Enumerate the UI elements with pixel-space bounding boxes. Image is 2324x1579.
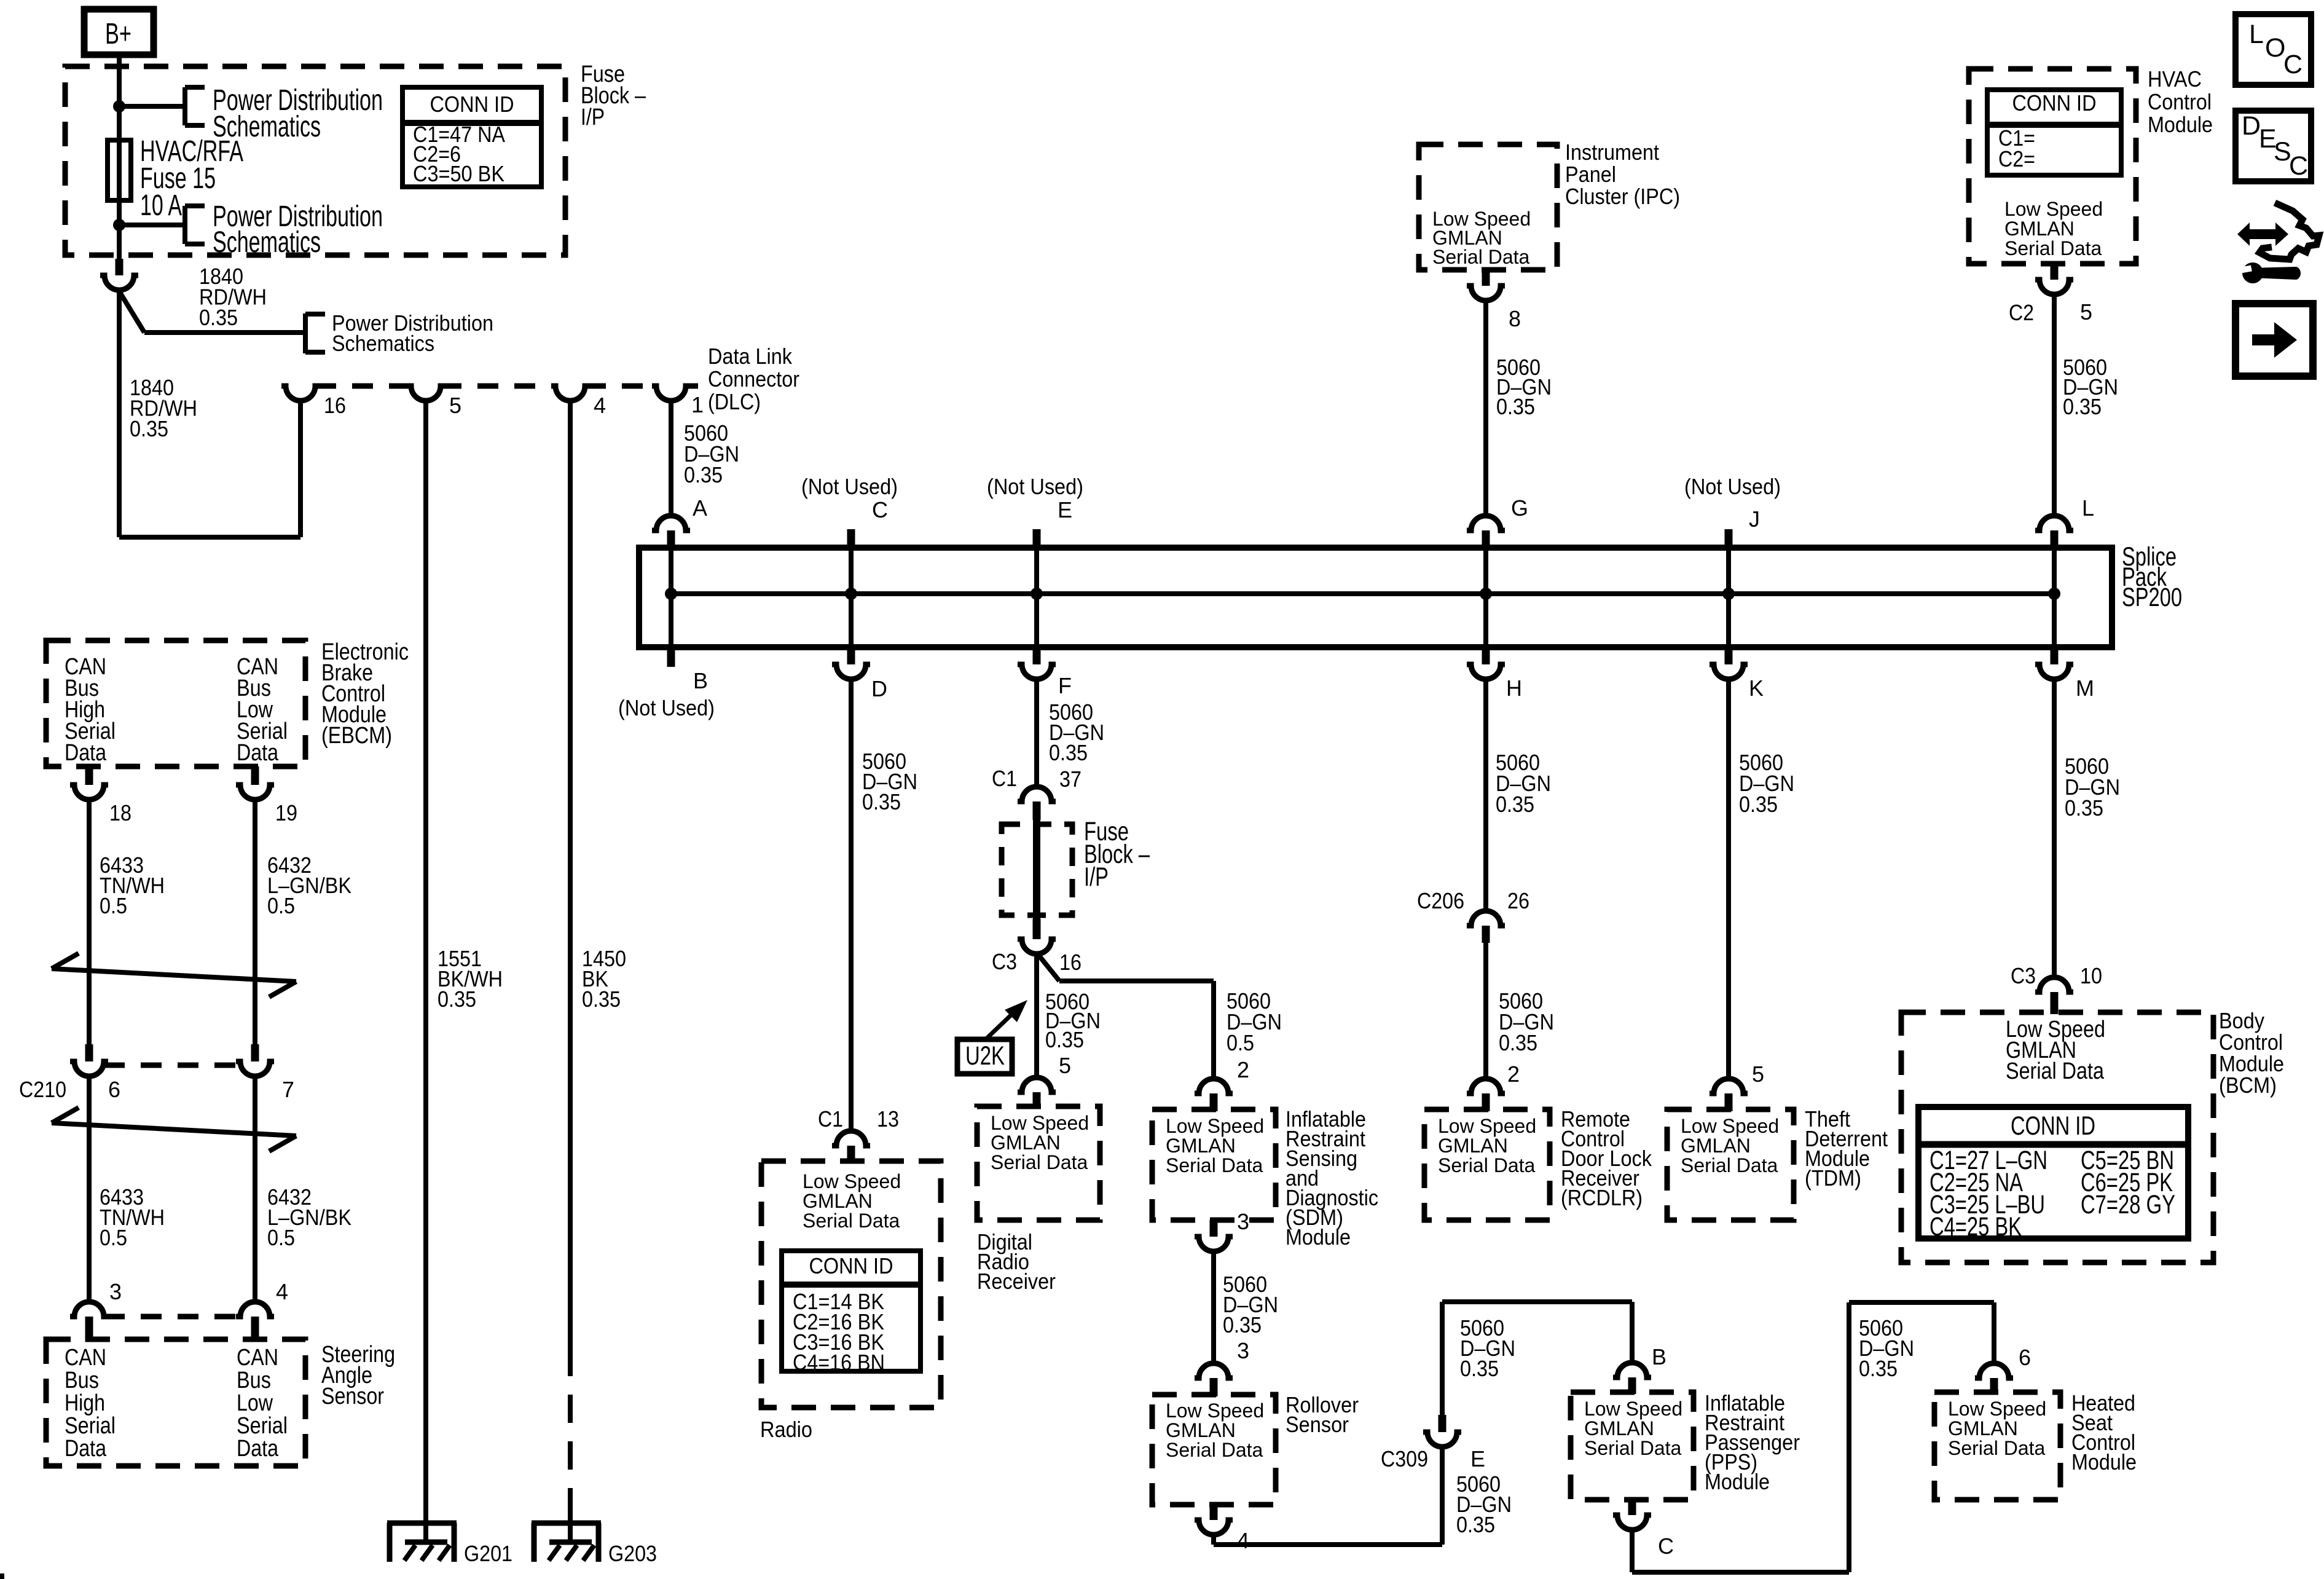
svg-text:Sensor: Sensor — [1286, 1412, 1349, 1437]
svg-text:G201: G201 — [464, 1541, 512, 1566]
U2K DTC callout box — [957, 1039, 1012, 1074]
svg-text:4: 4 — [1237, 1528, 1249, 1553]
svg-text:Data: Data — [65, 740, 107, 766]
svg-text:C7=28 GY: C7=28 GY — [2081, 1190, 2175, 1219]
svg-text:B+: B+ — [105, 18, 132, 50]
svg-text:L: L — [2249, 20, 2264, 49]
svg-text:C4=25 BK: C4=25 BK — [1929, 1212, 2022, 1242]
connector C309 pin E — [1439, 1415, 1447, 1432]
wire 5060 D-GN SDM to rollover sensor — [1211, 1251, 1216, 1363]
svg-text:7: 7 — [282, 1077, 294, 1102]
EBCM pin 18 connector — [85, 766, 93, 785]
wire 5060 D-GN splice K to TDM — [1726, 679, 1731, 1079]
splice through-wire at x=2813 — [1726, 551, 1731, 645]
svg-text:Serial Data: Serial Data — [991, 1151, 1088, 1173]
twisted pair symbol lower — [52, 1123, 296, 1136]
off-page bracket power distribution lower — [183, 206, 187, 244]
svg-text:High: High — [65, 1390, 105, 1416]
HVAC connector C2 pin 5 — [2051, 264, 2059, 280]
svg-text:0.35: 0.35 — [1496, 792, 1534, 817]
svg-text:CONN ID: CONN ID — [2011, 1111, 2095, 1141]
SDM pin 3 connector — [1210, 1220, 1218, 1237]
DLC connector face dashed line — [315, 384, 411, 389]
svg-text:0.35: 0.35 — [199, 305, 238, 330]
svg-text:I/P: I/P — [1084, 862, 1109, 892]
DLC pin 5 — [407, 386, 445, 401]
svg-text:0.5: 0.5 — [267, 1225, 295, 1250]
svg-text:Sensor: Sensor — [321, 1384, 384, 1409]
svg-text:37: 37 — [1059, 766, 1082, 792]
CONN ID table radio — [782, 1251, 921, 1371]
svg-text:0.35: 0.35 — [1739, 792, 1778, 817]
svg-text:Low Speed: Low Speed — [803, 1170, 901, 1192]
svg-text:Low Speed: Low Speed — [2004, 198, 2103, 220]
steering angle sensor dashed box — [46, 1339, 305, 1466]
svg-text:0.35: 0.35 — [1049, 740, 1088, 765]
svg-text:GMLAN: GMLAN — [1948, 1417, 2018, 1439]
CONN ID table HVAC — [1987, 90, 2121, 175]
svg-text:Module: Module — [1705, 1469, 1770, 1494]
svg-text:Low Speed: Low Speed — [1166, 1115, 1264, 1137]
connector C210 pin 7 — [251, 1044, 259, 1061]
connector C3 pin 10 BCM — [2035, 977, 2073, 992]
splice pin A — [652, 516, 690, 530]
splice bus junction at x=1092 — [665, 588, 677, 600]
svg-text:U2K: U2K — [965, 1041, 1005, 1071]
digital radio receiver dashed box — [977, 1106, 1100, 1220]
splice pin M — [2051, 645, 2059, 664]
svg-text:I/P: I/P — [581, 104, 605, 130]
wire branch to power distribution schematics — [119, 291, 144, 333]
DLC pin 4 — [551, 386, 589, 401]
connector C206 pin 26 — [1467, 911, 1505, 926]
svg-text:Data: Data — [237, 1436, 279, 1462]
svg-text:SP200: SP200 — [2122, 583, 2182, 612]
svg-text:CAN: CAN — [237, 1345, 278, 1371]
splice bus junction at x=3343 — [2048, 588, 2060, 600]
fuse F15 HVAC/RFA 10A — [108, 140, 131, 200]
svg-text:Low Speed: Low Speed — [1438, 1115, 1536, 1137]
wire 6433 TN/WH EBCM to C210 — [87, 800, 92, 1044]
svg-text:8: 8 — [1509, 306, 1521, 331]
svg-text:4: 4 — [276, 1279, 288, 1304]
PPS pin B connector — [1613, 1363, 1651, 1377]
svg-text:L: L — [2082, 495, 2094, 521]
svg-text:0.5: 0.5 — [100, 893, 127, 918]
svg-text:C3: C3 — [992, 949, 1017, 974]
svg-text:0.5: 0.5 — [1227, 1030, 1254, 1055]
svg-text:C1: C1 — [992, 766, 1017, 791]
svg-text:0.35: 0.35 — [684, 462, 723, 487]
svg-text:0.35: 0.35 — [582, 986, 621, 1012]
off-page bracket power distribution (mid) — [303, 313, 308, 353]
wire 6433 TN/WH C210 to steering sensor — [87, 1076, 92, 1302]
svg-text:G203: G203 — [608, 1541, 657, 1566]
svg-text:0.35: 0.35 — [1456, 1512, 1495, 1537]
C210 dashed connector line — [104, 1063, 240, 1068]
svg-text:19: 19 — [275, 800, 297, 825]
wire 1840 RD/WH down and over to DLC pin 16 — [117, 290, 122, 537]
steering sensor connector dashed line — [104, 1314, 240, 1320]
svg-text:C309: C309 — [1381, 1446, 1428, 1471]
TDM pin 5 connector — [1710, 1079, 1748, 1093]
svg-text:D: D — [2242, 111, 2261, 141]
PPS pin C connector — [1628, 1500, 1636, 1515]
svg-text:GMLAN: GMLAN — [1681, 1135, 1751, 1157]
svg-text:O: O — [2265, 33, 2285, 63]
BCM dashed box — [1901, 1012, 2213, 1262]
svg-text:(Not Used): (Not Used) — [801, 474, 898, 499]
svg-text:18: 18 — [109, 800, 132, 825]
ground G203 — [532, 1521, 601, 1526]
wire 5060 D-GN splice H down — [1483, 679, 1488, 911]
page corner mark — [0, 1573, 4, 1579]
svg-text:2: 2 — [1507, 1061, 1520, 1087]
svg-text:Schematics: Schematics — [213, 226, 321, 259]
B+ power node — [84, 9, 154, 55]
wire 1450 BK from DLC pin 4 to G203 — [568, 400, 573, 1348]
wire 6432 L-GN/BK C210 to steering sensor — [253, 1076, 257, 1302]
wire through small fuse block — [1033, 820, 1040, 919]
svg-text:E: E — [1058, 497, 1072, 522]
connector C1 pin 37 — [1018, 787, 1056, 801]
svg-text:(Not Used): (Not Used) — [987, 474, 1083, 499]
wire 5060 D-GN HVAC to splice L — [2052, 294, 2057, 516]
svg-text:M: M — [2076, 675, 2094, 701]
wire 5060 D-GN to digital radio receiver — [1034, 954, 1039, 1077]
svg-text:Bus: Bus — [65, 1368, 99, 1393]
steering sensor pin 4 connector — [236, 1302, 274, 1317]
svg-text:J: J — [1749, 506, 1760, 532]
svg-text:CONN ID: CONN ID — [809, 1253, 893, 1278]
svg-text:Schematics: Schematics — [332, 331, 434, 356]
RCDLR dashed box — [1424, 1109, 1550, 1220]
svg-text:0.35: 0.35 — [1460, 1356, 1499, 1381]
svg-text:0.35: 0.35 — [438, 986, 476, 1012]
svg-text:C2: C2 — [2009, 300, 2034, 325]
svg-text:GMLAN: GMLAN — [1584, 1417, 1654, 1439]
svg-text:E: E — [1470, 1446, 1485, 1471]
EBCM pin 19 connector — [251, 766, 259, 785]
svg-text:Serial Data: Serial Data — [803, 1210, 900, 1232]
wire B+ feed down through fuse block — [117, 52, 122, 259]
CONN ID table BCM — [1918, 1107, 2188, 1238]
wire 5060 D-GN from DLC pin 1 to splice A — [669, 400, 673, 516]
svg-text:(EBCM): (EBCM) — [321, 723, 392, 749]
svg-text:Connector: Connector — [708, 366, 799, 392]
SDM dashed box — [1152, 1109, 1276, 1220]
svg-text:GMLAN: GMLAN — [1166, 1419, 1236, 1441]
steering sensor pin 3 connector — [70, 1302, 108, 1317]
svg-text:Serial Data: Serial Data — [1166, 1154, 1263, 1176]
svg-text:Serial: Serial — [237, 1413, 288, 1439]
IPC pin 8 connector — [1482, 270, 1490, 286]
splice bus wire — [671, 591, 2054, 596]
svg-text:10 A: 10 A — [140, 189, 182, 222]
wire 1551 BK/WH from DLC pin 5 to G201 — [423, 400, 428, 1542]
svg-text:Low Speed: Low Speed — [1948, 1398, 2046, 1420]
svg-text:C4=16 BN: C4=16 BN — [793, 1350, 885, 1375]
svg-text:A: A — [693, 495, 707, 521]
svg-text:13: 13 — [877, 1106, 899, 1132]
heated seat pin 6 connector — [1975, 1363, 2013, 1378]
svg-text:Serial Data: Serial Data — [1584, 1437, 1682, 1459]
SDM pin 2 connector — [1195, 1079, 1233, 1093]
svg-text:C206: C206 — [1417, 888, 1464, 913]
svg-text:10: 10 — [2080, 963, 2102, 988]
digital radio receiver pin 5 connector — [1018, 1077, 1056, 1092]
EBCM dashed box — [46, 640, 305, 766]
svg-text:4: 4 — [594, 393, 606, 418]
svg-text:6: 6 — [2019, 1345, 2031, 1370]
splice pin C (not used) — [847, 529, 855, 551]
wire branch to power distribution (lower) — [119, 222, 185, 227]
svg-text:0.35: 0.35 — [1859, 1356, 1898, 1381]
svg-text:0.35: 0.35 — [862, 789, 901, 814]
svg-text:B: B — [693, 668, 708, 693]
svg-text:5: 5 — [1752, 1061, 1764, 1087]
wire split to SDM branch — [1037, 953, 1059, 981]
splice bus junction at x=1385 — [845, 588, 857, 600]
twisted pair symbol upper — [52, 969, 296, 982]
svg-text:HVAC: HVAC — [2148, 66, 2202, 92]
svg-text:0.35: 0.35 — [2065, 795, 2103, 821]
svg-text:5: 5 — [1059, 1053, 1071, 1078]
svg-text:Low Speed: Low Speed — [1681, 1115, 1779, 1137]
svg-text:Cluster (IPC): Cluster (IPC) — [1565, 184, 1680, 209]
svg-text:Low Speed: Low Speed — [991, 1112, 1089, 1134]
rollover sensor pin 3 connector — [1195, 1363, 1233, 1378]
DLC pin 16 — [281, 386, 320, 401]
svg-text:GMLAN: GMLAN — [803, 1190, 873, 1212]
wire 5060 D-GN PPS to heated seat module — [1630, 1530, 1635, 1572]
wire 6432 L-GN/BK EBCM to C210 — [253, 800, 257, 1044]
svg-text:(Not Used): (Not Used) — [1684, 474, 1781, 499]
svg-text:C3=50 BK: C3=50 BK — [413, 161, 504, 186]
LOC legend box — [2236, 14, 2311, 85]
RCDLR pin 2 connector — [1467, 1079, 1505, 1093]
svg-text:B: B — [1652, 1344, 1666, 1369]
splice bus junction at x=2813 — [1722, 588, 1735, 600]
DESC legend box — [2236, 111, 2311, 181]
wire 5060 D-GN splice F down — [1034, 679, 1039, 787]
svg-text:Radio: Radio — [760, 1417, 812, 1442]
rollover sensor pin 4 connector — [1210, 1505, 1218, 1520]
svg-text:0.5: 0.5 — [100, 1225, 127, 1250]
U2K arrow — [986, 1012, 1014, 1039]
svg-text:Instrument: Instrument — [1565, 140, 1659, 165]
svg-text:Panel: Panel — [1565, 162, 1616, 187]
splice pin B (not used) — [667, 645, 675, 667]
svg-text:Control: Control — [2148, 89, 2212, 114]
svg-text:GMLAN: GMLAN — [1166, 1135, 1236, 1157]
svg-text:Serial Data: Serial Data — [1166, 1439, 1263, 1461]
svg-text:16: 16 — [1059, 950, 1082, 975]
svg-text:2: 2 — [1237, 1057, 1249, 1082]
splice bus junction at x=1687 — [1030, 588, 1043, 600]
svg-text:Serial: Serial — [65, 1413, 116, 1439]
svg-text:Module: Module — [1286, 1224, 1351, 1250]
svg-text:(BCM): (BCM) — [2219, 1073, 2277, 1098]
splice through-wire at x=2418 — [1483, 551, 1488, 645]
wire 5060 D-GN C206 to RCDLR — [1483, 943, 1488, 1079]
svg-text:Data: Data — [65, 1436, 107, 1462]
svg-text:26: 26 — [1507, 888, 1529, 913]
svg-text:Module: Module — [2148, 112, 2213, 137]
rollover sensor dashed box — [1152, 1395, 1276, 1505]
svg-text:CAN: CAN — [65, 1345, 106, 1371]
wire 5060 D-GN splice M down — [2052, 679, 2057, 977]
splice through-wire at x=1687 — [1034, 551, 1039, 645]
svg-text:(RCDLR): (RCDLR) — [1561, 1185, 1643, 1210]
splice pin H — [1482, 645, 1490, 664]
svg-text:C210: C210 — [19, 1077, 66, 1102]
svg-text:(Not Used): (Not Used) — [618, 695, 715, 720]
svg-text:0.35: 0.35 — [1499, 1030, 1537, 1055]
splice pin E (not used) — [1033, 529, 1041, 551]
splice pin L — [2035, 516, 2073, 530]
svg-text:0.35: 0.35 — [2063, 394, 2102, 419]
svg-text:C: C — [1658, 1534, 1674, 1559]
svg-text:3: 3 — [1237, 1209, 1249, 1234]
svg-text:F: F — [1058, 673, 1072, 698]
IPC dashed box — [1419, 144, 1557, 270]
svg-text:Serial Data: Serial Data — [1432, 246, 1530, 268]
fuse block I/P small dashed box — [1002, 824, 1072, 915]
connector C3 pin 16 — [1033, 919, 1041, 939]
wiring repair icon (arrows and wrench) — [2237, 222, 2288, 246]
svg-text:H: H — [1506, 675, 1522, 701]
svg-text:GMLAN: GMLAN — [1438, 1135, 1508, 1157]
splice through-wire at x=1092 — [669, 551, 673, 645]
svg-text:C: C — [2289, 151, 2308, 181]
svg-text:1: 1 — [691, 392, 704, 417]
fuse block I/P dashed box — [65, 66, 565, 255]
wire 5060 D-GN rollover to C309 — [1211, 1535, 1216, 1545]
heated seat control module dashed box — [1934, 1392, 2060, 1500]
svg-text:CONN ID: CONN ID — [2012, 90, 2097, 116]
wire 5060 D-GN splice D to radio — [849, 679, 854, 1131]
svg-text:Serial Data: Serial Data — [2006, 1058, 2105, 1084]
splice pin J (not used) — [1725, 529, 1733, 551]
radio dashed box — [761, 1161, 941, 1408]
splice pin D — [847, 645, 855, 664]
svg-text:Serial Data: Serial Data — [1681, 1154, 1778, 1176]
svg-text:Receiver: Receiver — [977, 1269, 1056, 1294]
svg-text:0.35: 0.35 — [130, 416, 168, 441]
svg-text:CONN ID: CONN ID — [430, 92, 514, 117]
svg-text:0.35: 0.35 — [1045, 1027, 1084, 1052]
connector leaving fuse block — [116, 259, 124, 275]
svg-text:6: 6 — [108, 1077, 120, 1102]
svg-text:(DLC): (DLC) — [708, 389, 761, 414]
wire 5060 D-GN IPC to splice G — [1483, 301, 1488, 516]
svg-text:0.35: 0.35 — [1223, 1312, 1262, 1337]
ground G201 — [387, 1521, 457, 1526]
svg-text:K: K — [1749, 675, 1764, 701]
svg-text:Data Link: Data Link — [708, 344, 793, 369]
svg-text:Data: Data — [237, 740, 279, 766]
HVAC control module dashed box — [1969, 69, 2136, 264]
connector C210 pin 6 — [85, 1044, 93, 1061]
splice pack SP200 box — [639, 548, 2112, 647]
wire branch to power distribution (upper) — [119, 104, 185, 109]
svg-text:0.5: 0.5 — [267, 893, 295, 918]
TDM dashed box — [1667, 1109, 1794, 1220]
splice through-wire at x=1385 — [849, 551, 854, 645]
svg-text:(TDM): (TDM) — [1805, 1165, 1861, 1191]
forward arrow legend box — [2236, 304, 2313, 376]
svg-text:16: 16 — [324, 393, 346, 418]
svg-text:C1: C1 — [818, 1106, 843, 1132]
svg-text:C2=: C2= — [1998, 146, 2035, 171]
svg-text:Serial Data: Serial Data — [2004, 237, 2102, 259]
svg-text:Serial Data: Serial Data — [1948, 1437, 2046, 1459]
svg-text:GMLAN: GMLAN — [2004, 218, 2075, 240]
splice through-wire at x=3343 — [2052, 551, 2057, 645]
svg-text:C: C — [2283, 50, 2302, 79]
svg-text:Low Speed: Low Speed — [1166, 1400, 1264, 1422]
splice pin G — [1467, 516, 1505, 530]
svg-text:Bus: Bus — [237, 1368, 271, 1393]
svg-text:3: 3 — [1237, 1338, 1249, 1363]
svg-text:3: 3 — [109, 1279, 122, 1304]
svg-text:Serial Data: Serial Data — [1438, 1154, 1536, 1176]
svg-text:C3: C3 — [2011, 963, 2036, 988]
svg-text:Low Speed: Low Speed — [1584, 1398, 1682, 1420]
CONN ID table fuse block — [402, 87, 541, 187]
off-page bracket power distribution upper — [183, 87, 187, 125]
node junction upper — [113, 100, 125, 112]
node junction lower — [113, 219, 125, 231]
svg-text:GMLAN: GMLAN — [991, 1132, 1061, 1154]
connector C1 pin 13 radio — [832, 1131, 870, 1146]
DLC pin 1 — [652, 386, 690, 401]
svg-text:Module: Module — [2071, 1449, 2137, 1475]
PPS dashed box — [1571, 1392, 1694, 1500]
splice pin F — [1033, 645, 1041, 664]
svg-text:C: C — [872, 497, 888, 522]
splice pin K — [1725, 645, 1733, 664]
svg-text:D: D — [871, 676, 887, 701]
wire 5060 D-GN C309 to PPS — [1440, 1302, 1445, 1415]
svg-text:5: 5 — [449, 393, 461, 418]
svg-text:Low: Low — [237, 1390, 273, 1416]
svg-text:G: G — [1511, 495, 1528, 521]
splice bus junction at x=2418 — [1480, 588, 1492, 600]
svg-text:0.35: 0.35 — [1496, 394, 1535, 419]
svg-text:5: 5 — [2080, 299, 2092, 325]
